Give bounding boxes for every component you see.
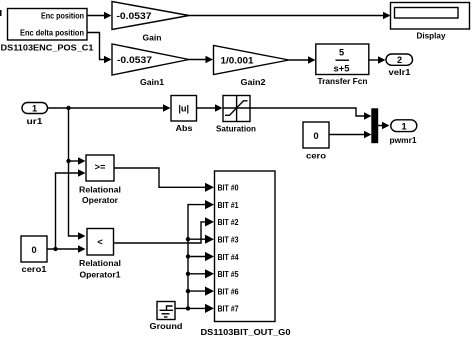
edge artifact top-left xyxy=(0,10,2,16)
svg-text:2: 2 xyxy=(397,55,402,65)
wire Abs -> Saturation xyxy=(197,104,223,112)
wire bus -> BIT #4 xyxy=(188,252,214,261)
wire Relational Operator1 -> BIT #2 xyxy=(114,217,215,243)
svg-text:pwmr1: pwmr1 xyxy=(390,135,417,145)
constant cero1 xyxy=(21,236,47,274)
svg-text:BIT #5: BIT #5 xyxy=(218,269,239,279)
junction node bus at BIT #6 xyxy=(186,289,190,293)
svg-text:Enc position: Enc position xyxy=(41,11,84,21)
subsystem U1 DS1103ENC_POS_C1 xyxy=(1,9,94,53)
svg-text:Ground: Ground xyxy=(150,321,183,331)
svg-text:1/0.001: 1/0.001 xyxy=(221,56,254,66)
svg-text:BIT #6: BIT #6 xyxy=(218,286,239,296)
wire cero1 -> Relational Operator1 bottom input xyxy=(47,245,86,253)
svg-text:Abs: Abs xyxy=(176,123,193,133)
junction node on cero1 wire xyxy=(53,247,57,251)
svg-text:Operator: Operator xyxy=(82,195,119,205)
abs block Abs xyxy=(171,96,197,134)
wire bus -> BIT #3 xyxy=(188,235,214,244)
output port 1 pwmr1 xyxy=(390,120,417,145)
junction node bus at BIT #7 xyxy=(186,306,190,310)
svg-text:>=: >= xyxy=(95,162,106,172)
wire bus vertical xyxy=(188,200,214,308)
svg-text:Gain2: Gain2 xyxy=(241,77,266,87)
svg-text:BIT #2: BIT #2 xyxy=(218,217,239,227)
mux Mux xyxy=(372,109,378,143)
svg-text:1: 1 xyxy=(401,121,406,131)
svg-text:|u|: |u| xyxy=(178,104,189,114)
svg-text:<: < xyxy=(97,237,102,247)
svg-text:-0.0537: -0.0537 xyxy=(117,11,152,21)
svg-text:0: 0 xyxy=(313,131,318,141)
junction node feeding Relational Operator top input xyxy=(66,159,70,163)
wire Ground -> BIT #7 xyxy=(175,304,214,313)
svg-text:5: 5 xyxy=(339,48,344,58)
output port 2 velr1 xyxy=(386,54,413,77)
wire Gain1 -> Gain2 xyxy=(189,56,213,64)
svg-text:DS1103ENC_POS_C1: DS1103ENC_POS_C1 xyxy=(1,43,94,53)
wire junction -> Relational Operator top input xyxy=(69,157,86,165)
svg-text:Relational: Relational xyxy=(79,258,121,268)
svg-text:0: 0 xyxy=(31,245,36,255)
transfer function block Transfer Fcn xyxy=(316,44,369,86)
svg-text:1: 1 xyxy=(32,104,37,114)
subsystem U2 DS1103BIT_OUT_G0 xyxy=(201,171,291,337)
svg-text:BIT #3: BIT #3 xyxy=(218,234,239,244)
svg-text:BIT #1: BIT #1 xyxy=(218,200,239,210)
relational operator Relational Operator xyxy=(79,155,121,205)
display block Display xyxy=(391,3,470,41)
junction node bus at BIT #5 xyxy=(186,272,190,276)
svg-text:cero1: cero1 xyxy=(22,264,47,274)
gain Gain2 xyxy=(214,46,290,88)
wire junction up to Relational Operator bottom input xyxy=(56,169,86,249)
gain Gain1 xyxy=(112,44,189,87)
wire Mux -> pwmr1 xyxy=(378,122,390,130)
svg-text:-0.0537: -0.0537 xyxy=(117,55,152,65)
svg-text:Transfer Fcn: Transfer Fcn xyxy=(318,76,368,86)
svg-text:velr1: velr1 xyxy=(389,67,411,77)
wire Saturation -> Mux top input xyxy=(250,108,372,120)
svg-text:s+5: s+5 xyxy=(334,64,350,74)
svg-text:BIT #7: BIT #7 xyxy=(218,304,239,314)
svg-text:DS1103BIT_OUT_G0: DS1103BIT_OUT_G0 xyxy=(201,327,291,337)
svg-text:Operator1: Operator1 xyxy=(80,270,121,280)
svg-text:Relational: Relational xyxy=(79,185,121,195)
wire cero -> Mux bottom input xyxy=(329,131,372,139)
svg-text:ur1: ur1 xyxy=(27,116,43,126)
junction node at ur1 wire xyxy=(66,106,70,110)
saturation block Saturation xyxy=(216,96,256,134)
constant cero xyxy=(303,122,329,161)
svg-text:Enc delta position: Enc delta position xyxy=(20,28,84,38)
relational operator Relational Operator1 xyxy=(79,229,121,280)
wire Enc delta position -> Gain1 xyxy=(87,33,112,64)
junction node bus at BIT #3 xyxy=(186,237,190,241)
svg-text:Gain1: Gain1 xyxy=(140,77,164,87)
ground block Ground xyxy=(150,302,183,332)
wire Transfer Fcn -> velr1 xyxy=(369,56,386,64)
svg-text:Display: Display xyxy=(417,31,446,41)
input port 1 ur1 xyxy=(22,103,48,127)
svg-text:BIT #4: BIT #4 xyxy=(218,252,239,262)
svg-text:cero: cero xyxy=(306,151,326,161)
svg-text:Gain: Gain xyxy=(143,33,162,43)
wire Enc position -> Gain xyxy=(87,12,112,20)
wire Gain2 -> Transfer Fcn xyxy=(289,56,316,64)
wire Relational Operator -> BIT #0 xyxy=(114,168,214,192)
svg-text:BIT #0: BIT #0 xyxy=(218,183,239,193)
wire ur1 -> Abs xyxy=(48,104,171,112)
wire Gain -> Display xyxy=(189,12,391,20)
wire bus -> BIT #5 xyxy=(188,269,214,278)
junction node bus at BIT #4 xyxy=(186,254,190,258)
wire ur1 junction down to Relational Operator1 top input xyxy=(69,108,86,240)
wire bus -> BIT #6 xyxy=(188,287,214,296)
gain Gain xyxy=(112,2,189,43)
svg-text:Saturation: Saturation xyxy=(216,124,256,134)
